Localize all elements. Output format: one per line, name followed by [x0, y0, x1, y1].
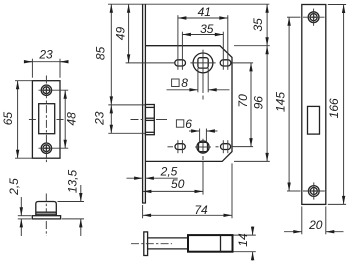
- screw centerlines: [303, 16, 325, 18]
- svg-text:41: 41: [198, 5, 211, 19]
- magnetic latch (face view): [145, 105, 154, 135]
- dim 14 (latch height): [234, 227, 256, 261]
- spindle square 8mm: [198, 58, 208, 68]
- svg-text:145: 145: [273, 92, 287, 112]
- dim 65 (strike height): [1, 81, 32, 159]
- latch horizontal centerline: [131, 119, 145, 121]
- svg-text:35: 35: [251, 18, 265, 32]
- svg-text:14: 14: [236, 233, 250, 247]
- svg-text:65: 65: [1, 112, 15, 126]
- svg-text:2,5: 2,5: [7, 178, 21, 196]
- bottom post horizontal centerline dashes: [168, 146, 174, 148]
- strike box body: [36, 202, 57, 216]
- strike plate outline: [32, 81, 60, 159]
- strike screw top: [41, 85, 51, 95]
- svg-text:96: 96: [252, 96, 266, 110]
- strike box collar: [36, 211, 57, 213]
- top extension line (faceplate top): [108, 3, 269, 5]
- svg-text:166: 166: [327, 98, 341, 118]
- dim 48 (screw spacing): [65, 90, 79, 148]
- spindle vertical centerline: [202, 50, 204, 93]
- svg-text:8: 8: [181, 76, 188, 90]
- dim 85 (top to latch): [93, 4, 145, 105]
- strike plate vertical centerline: [45, 76, 47, 164]
- svg-text:74: 74: [194, 203, 208, 217]
- svg-text:6: 6: [185, 117, 192, 131]
- strike box base plate: [32, 216, 60, 219]
- svg-text:49: 49: [114, 27, 128, 41]
- dim 20 (faceplate width): [284, 206, 344, 234]
- dim 70 (hole rows spacing): [232, 63, 254, 147]
- faceplate edge-on strip: [143, 4, 146, 203]
- screw centerline horizontals (also ext for dim 48): [39, 89, 69, 91]
- top-left slotted hole: [175, 60, 186, 66]
- dim 2,5 (base thickness): [7, 178, 31, 236]
- latch axis centerline: [131, 243, 172, 245]
- bottom post vertical centerline: [202, 139, 204, 154]
- svg-text:48: 48: [65, 112, 79, 126]
- dim 8 (spindle square): [167, 68, 230, 92]
- ext lines for dims 41/35 through slots: [177, 15, 179, 70]
- dim 145 (screw spacing): [273, 17, 300, 191]
- bottom square post circle: [197, 141, 209, 153]
- svg-text:23: 23: [38, 48, 53, 62]
- dim 2,5 (faceplate thickness): [127, 165, 178, 179]
- bottom square 6mm: [199, 142, 208, 151]
- bottom-left slotted hole: [175, 144, 185, 150]
- latch tail box: [148, 238, 188, 249]
- svg-text:20: 20: [308, 218, 323, 232]
- faceplate outline: [302, 5, 326, 205]
- svg-text:23: 23: [93, 111, 107, 126]
- svg-text:13,5: 13,5: [66, 169, 80, 193]
- dim 13,5 (box height): [58, 169, 85, 236]
- lock body outline: [145, 46, 232, 162]
- svg-text:50: 50: [171, 177, 185, 191]
- dim 49 (top to spindle): [114, 4, 175, 63]
- dim 23 (strike width): [25, 48, 69, 78]
- faceplate latch hole: [308, 106, 320, 134]
- faceplate edge (bottom view): [144, 232, 148, 256]
- strike box centerline: [45, 194, 47, 213]
- dim 74 (body depth): [143, 163, 232, 218]
- dim 35 (top to body): [251, 4, 267, 46]
- strike screw bottom: [41, 143, 51, 153]
- spindle horizontal centerline: [190, 62, 215, 64]
- faceplate screw bottom: [308, 186, 319, 197]
- label square-8: [172, 76, 189, 90]
- strike plate latch hole: [39, 104, 55, 134]
- latch head box: [188, 235, 233, 252]
- dim 41: [178, 5, 228, 19]
- dim 166 (faceplate length): [327, 5, 346, 205]
- svg-text:35: 35: [200, 22, 214, 36]
- faceplate screw top: [308, 12, 319, 23]
- latch tip divider: [220, 235, 222, 252]
- svg-text:70: 70: [236, 94, 250, 108]
- dim 96 (body height): [234, 46, 270, 162]
- dim 50 (backset): [143, 162, 203, 195]
- strike hole horizontal centerline dashes: [29, 119, 36, 121]
- bottom slot centerline dashes: [177, 140, 179, 153]
- dim 6 (bottom square): [189, 129, 218, 143]
- dim 23 (latch height): [93, 105, 145, 133]
- top-right slotted hole: [220, 60, 231, 66]
- bottom-right slotted hole: [221, 144, 231, 150]
- dim 35 (slot inner): [182, 22, 223, 36]
- label square-6: [176, 117, 192, 131]
- spindle hub circle: [193, 53, 213, 73]
- svg-text:85: 85: [93, 46, 107, 60]
